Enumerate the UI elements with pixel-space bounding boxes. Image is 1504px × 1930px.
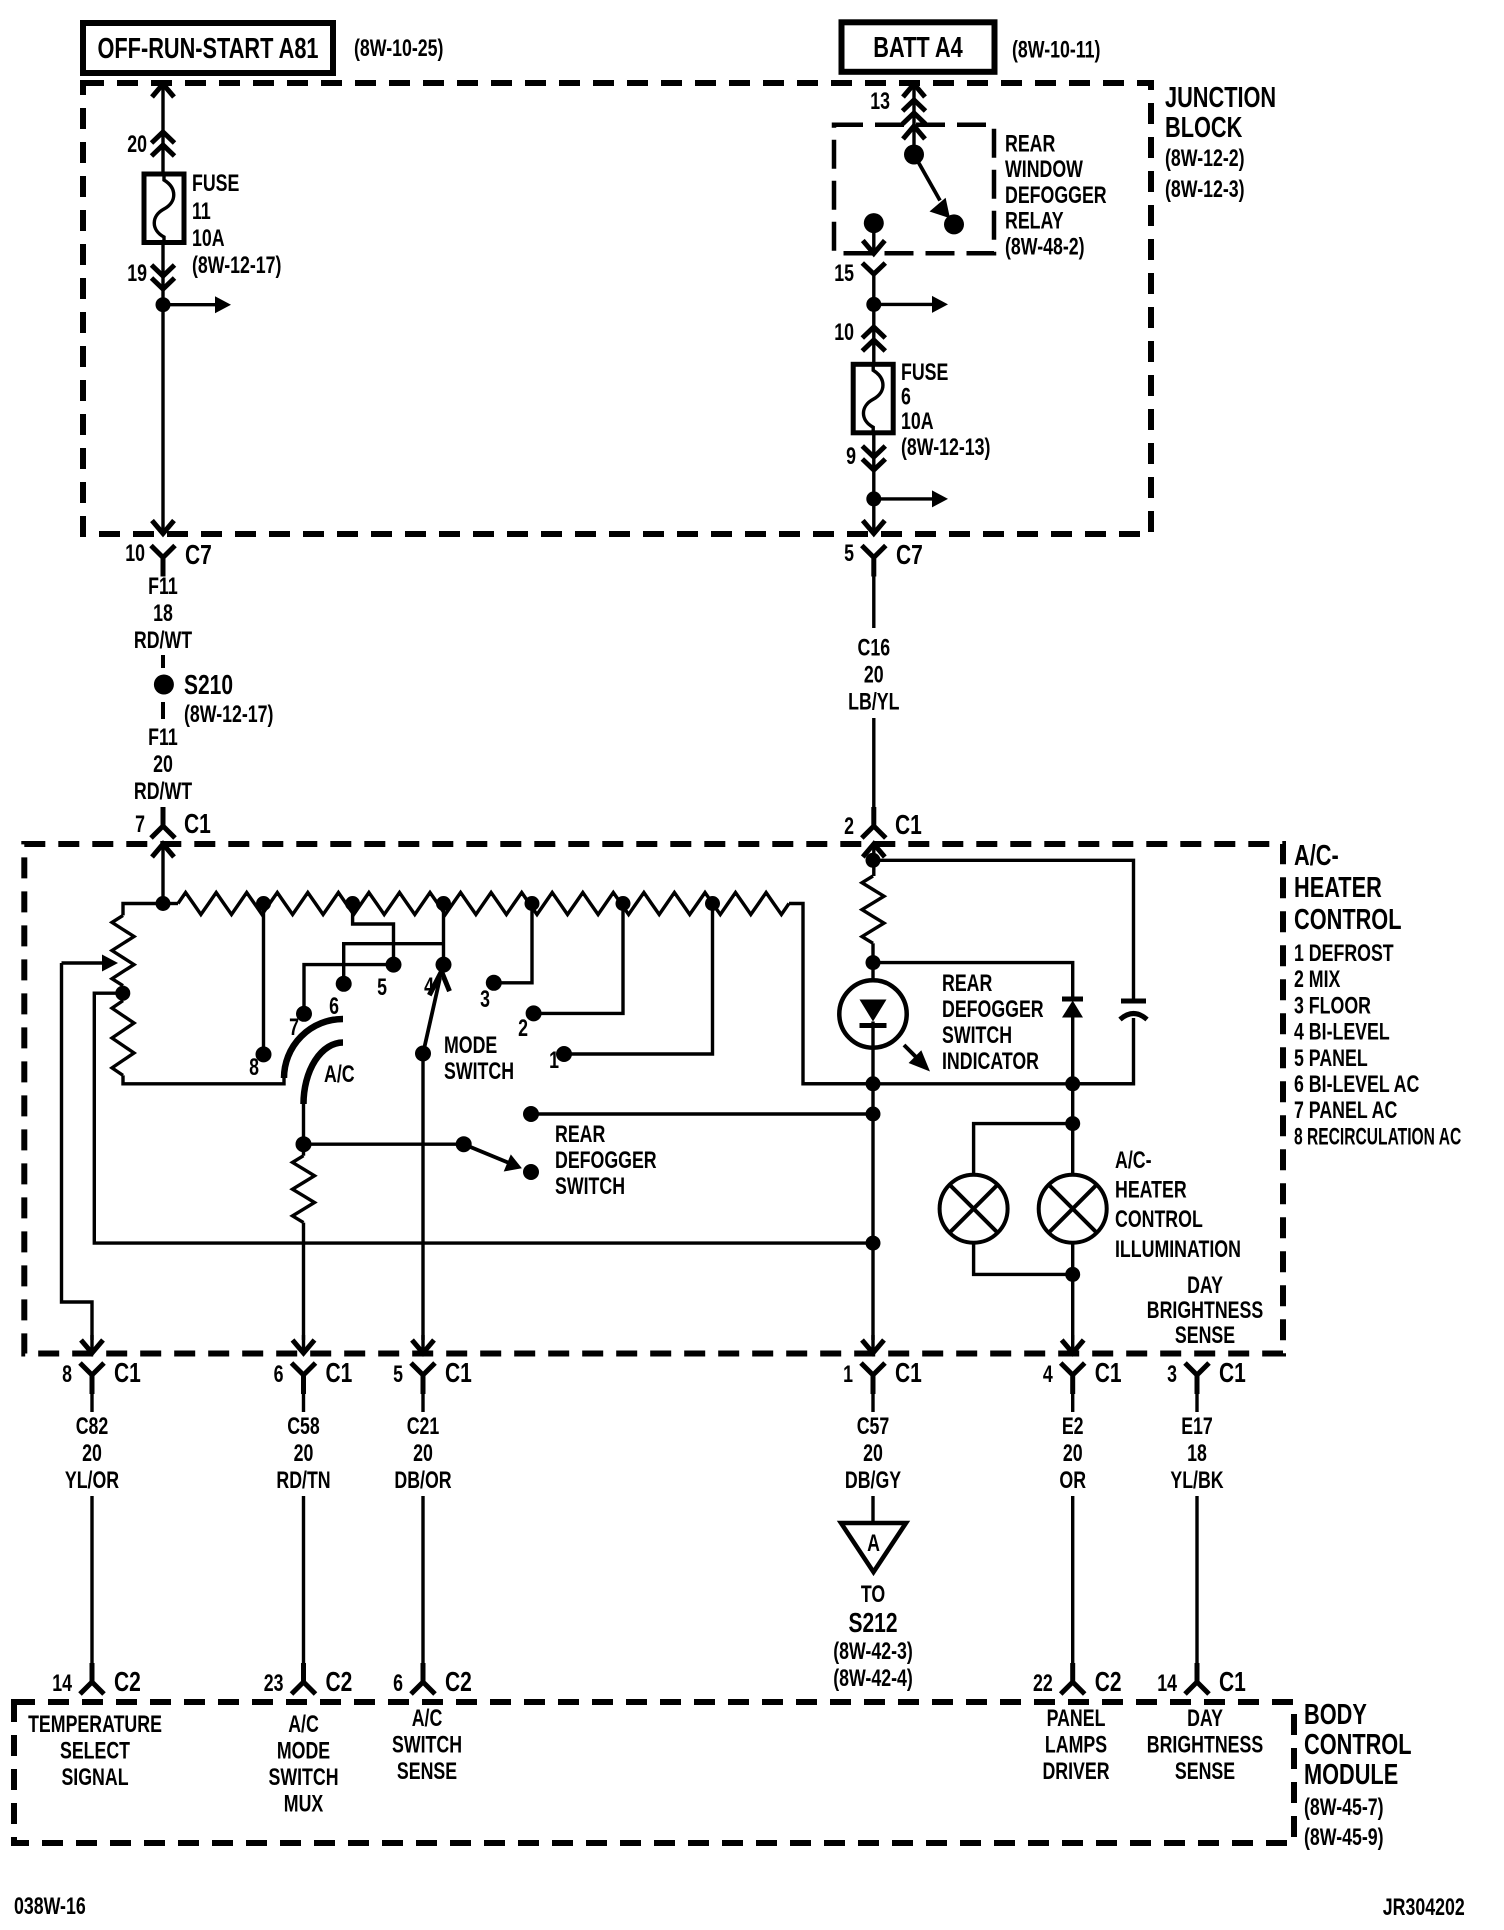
- svg-text:A: A: [867, 1531, 880, 1557]
- arrow into control box (pin 2 C1): [863, 844, 885, 857]
- wire C57 upper: [871, 1394, 874, 1412]
- dashed wire to S210: [161, 655, 165, 668]
- wire arc to A/C common dot: [302, 1104, 305, 1144]
- connector C1 pin 5: [411, 1363, 435, 1394]
- svg-text:SWITCH: SWITCH: [268, 1765, 338, 1791]
- rear defogger switch pivot dot: [456, 1136, 472, 1152]
- wire into indicator branch: [872, 844, 875, 876]
- svg-text:A/C-: A/C-: [1294, 840, 1339, 872]
- arrow out of control box pin 1: [871, 1335, 874, 1353]
- svg-text:C7: C7: [896, 540, 923, 571]
- mode switch blade: [423, 978, 440, 1054]
- connector C2 pin 22 at BCM: [1061, 1663, 1085, 1694]
- svg-text:23: 23: [264, 1671, 284, 1697]
- rail to protection diode: [873, 963, 1073, 999]
- svg-text:SWITCH: SWITCH: [555, 1174, 625, 1200]
- defogger sense node dot: [866, 1107, 881, 1122]
- svg-text:9: 9: [846, 444, 856, 470]
- relay switch pivot dot: [904, 145, 924, 165]
- relay output wire: [872, 223, 875, 253]
- svg-text:1: 1: [549, 1048, 559, 1074]
- contact 3 wire: [494, 904, 532, 983]
- pin 19 double chevron: [152, 265, 175, 276]
- svg-text:22: 22: [1033, 1671, 1053, 1697]
- svg-text:C7: C7: [185, 540, 212, 571]
- svg-text:DB/OR: DB/OR: [394, 1468, 451, 1494]
- svg-text:SWITCH: SWITCH: [942, 1023, 1012, 1049]
- svg-text:DRIVER: DRIVER: [1042, 1759, 1109, 1785]
- wire A/C common to defogger switch pivot: [304, 1142, 464, 1145]
- svg-text:DEFOGGER: DEFOGGER: [555, 1148, 657, 1174]
- svg-text:BRIGHTNESS: BRIGHTNESS: [1147, 1298, 1263, 1324]
- connector C1 pin 8: [80, 1363, 104, 1394]
- svg-text:(8W-10-11): (8W-10-11): [1012, 37, 1100, 63]
- svg-text:(8W-10-25): (8W-10-25): [354, 36, 443, 62]
- svg-text:C1: C1: [114, 1358, 141, 1389]
- mode switch pivot dot: [415, 1046, 431, 1062]
- svg-text:5 PANEL: 5 PANEL: [1294, 1045, 1368, 1071]
- svg-text:20: 20: [413, 1441, 433, 1467]
- indicator series resistor: [862, 876, 884, 943]
- relay switch blade: [914, 155, 940, 201]
- svg-text:SIGNAL: SIGNAL: [61, 1765, 128, 1791]
- svg-text:C2: C2: [1095, 1667, 1122, 1698]
- pin 15 in-line connector: [862, 263, 885, 274]
- arrow into junction block top (left): [152, 84, 174, 97]
- svg-text:E17: E17: [1181, 1414, 1213, 1440]
- rear defogger switch indicator LED: [839, 980, 906, 1047]
- svg-text:1: 1: [843, 1362, 853, 1388]
- bottom rail dot at LED: [866, 1076, 881, 1091]
- svg-text:WINDOW: WINDOW: [1005, 157, 1083, 183]
- svg-text:OFF-RUN-START A81: OFF-RUN-START A81: [97, 33, 318, 65]
- relay normally-open contact dot: [944, 214, 964, 234]
- arrow out of junction block bottom (right): [863, 521, 885, 534]
- svg-text:JUNCTION: JUNCTION: [1165, 82, 1276, 114]
- svg-text:FUSE: FUSE: [192, 171, 239, 197]
- wire defogger contact to indicator branch: [531, 1112, 873, 1115]
- svg-text:7: 7: [135, 812, 145, 838]
- svg-text:C1: C1: [184, 809, 211, 840]
- mode switch output wire to C1 pin 5: [421, 1054, 424, 1341]
- svg-text:(8W-48-2): (8W-48-2): [1005, 234, 1085, 260]
- svg-text:BRIGHTNESS: BRIGHTNESS: [1147, 1732, 1263, 1758]
- svg-text:MODULE: MODULE: [1304, 1759, 1398, 1791]
- connector C1 pin 1 (bottom): [861, 1363, 885, 1394]
- svg-text:DAY: DAY: [1187, 1706, 1223, 1732]
- svg-text:CONTROL: CONTROL: [1294, 904, 1401, 936]
- svg-text:MODE: MODE: [444, 1033, 497, 1059]
- svg-text:6: 6: [329, 994, 339, 1020]
- off-page connector A triangle: [841, 1523, 906, 1572]
- contact 4 dot: [436, 957, 452, 973]
- wire indicator branch to C1 pin 1: [871, 1084, 874, 1340]
- wire E17 upper: [1195, 1394, 1198, 1412]
- svg-text:C2: C2: [114, 1667, 141, 1698]
- svg-text:C1: C1: [1219, 1358, 1246, 1389]
- connector C1 pin 4: [1061, 1363, 1085, 1394]
- bottom rail: [803, 1082, 1134, 1085]
- svg-text:2: 2: [844, 814, 854, 840]
- svg-text:(8W-12-17): (8W-12-17): [192, 253, 281, 279]
- svg-text:20: 20: [153, 752, 173, 778]
- svg-text:038W-16: 038W-16: [14, 1894, 86, 1920]
- junction dot with feed arrow (left): [156, 297, 171, 312]
- svg-text:LAMPS: LAMPS: [1045, 1732, 1107, 1758]
- svg-text:6: 6: [274, 1362, 284, 1388]
- svg-text:10A: 10A: [192, 226, 225, 252]
- svg-text:2: 2: [518, 1016, 528, 1042]
- wire LED to bottom rail: [871, 1048, 874, 1084]
- svg-text:5: 5: [844, 541, 854, 567]
- svg-text:(8W-45-9): (8W-45-9): [1304, 1825, 1384, 1851]
- power feed box OFF-RUN-START A81: [83, 23, 333, 73]
- wire label to C1 pin 2: [872, 718, 875, 807]
- pin 9 double chevron: [862, 446, 885, 457]
- svg-text:LB/YL: LB/YL: [848, 689, 899, 715]
- relay output contact dot: [864, 213, 884, 233]
- contact 1 wire: [564, 904, 713, 1055]
- arrow out of control box pin 4: [1071, 1335, 1074, 1353]
- pot bottom wire to mode switch arc: [123, 1075, 284, 1083]
- temperature select potentiometer lower: [121, 993, 124, 1000]
- contact 4 wire: [442, 904, 445, 965]
- svg-text:DB/GY: DB/GY: [845, 1468, 901, 1494]
- wire C58 lower: [302, 1496, 305, 1668]
- svg-text:MUX: MUX: [284, 1791, 323, 1817]
- svg-text:C1: C1: [445, 1358, 472, 1389]
- illumination lamp 2: [1039, 1175, 1107, 1243]
- svg-text:20: 20: [294, 1441, 314, 1467]
- svg-text:19: 19: [127, 261, 147, 287]
- svg-text:(8W-12-2): (8W-12-2): [1165, 146, 1245, 172]
- wire E2 lower: [1071, 1496, 1074, 1668]
- svg-text:6: 6: [393, 1671, 403, 1697]
- svg-text:BLOCK: BLOCK: [1165, 112, 1243, 144]
- pin 10 double chevron: [862, 327, 885, 338]
- svg-text:14: 14: [1157, 1671, 1177, 1697]
- svg-text:F11: F11: [148, 725, 178, 751]
- contact 2 dot: [526, 1005, 542, 1021]
- svg-text:S212: S212: [848, 1608, 897, 1639]
- arrow into junction block top (right): [903, 84, 925, 97]
- svg-text:C1: C1: [326, 1358, 353, 1389]
- svg-text:2 MIX: 2 MIX: [1294, 967, 1340, 993]
- svg-text:TEMPERATURE: TEMPERATURE: [28, 1712, 162, 1738]
- svg-text:18: 18: [1187, 1441, 1207, 1467]
- contact 1 dot: [556, 1046, 572, 1062]
- svg-text:YL/BK: YL/BK: [1170, 1468, 1224, 1494]
- svg-text:1 DEFROST: 1 DEFROST: [1294, 941, 1394, 967]
- wire lamp feed to lamp 1: [974, 1124, 1073, 1175]
- svg-text:4: 4: [1043, 1362, 1053, 1388]
- svg-text:SENSE: SENSE: [1175, 1323, 1235, 1349]
- top rail to capacitor: [873, 860, 1134, 1001]
- arrow out of control box pin 5: [421, 1335, 424, 1353]
- svg-text:HEATER: HEATER: [1115, 1177, 1187, 1203]
- connector C1 pin 3: [1185, 1363, 1209, 1394]
- svg-text:8 RECIRCULATION AC: 8 RECIRCULATION AC: [1294, 1124, 1462, 1150]
- svg-text:(8W-42-3): (8W-42-3): [833, 1639, 913, 1665]
- svg-text:SWITCH: SWITCH: [392, 1732, 462, 1758]
- wiper wire to C1 pin 8: [62, 963, 93, 1340]
- contact 3 dot: [486, 975, 502, 991]
- illumination lamp 1: [940, 1175, 1008, 1243]
- wire from BATT A4 into junction block: [912, 84, 915, 155]
- wire from OFF-RUN-START into junction block: [161, 84, 164, 174]
- svg-text:20: 20: [863, 1441, 883, 1467]
- svg-text:MODE: MODE: [277, 1738, 330, 1764]
- arrow out of control box pin 8: [90, 1335, 93, 1353]
- svg-text:E2: E2: [1062, 1414, 1084, 1440]
- contact 2 wire: [534, 904, 623, 1014]
- wire C82 lower: [90, 1496, 93, 1668]
- temperature select potentiometer upper: [112, 915, 134, 985]
- bottom rail dot at diode: [1065, 1076, 1080, 1091]
- svg-text:C1: C1: [1095, 1358, 1122, 1389]
- svg-text:3: 3: [1167, 1362, 1177, 1388]
- svg-text:ILLUMINATION: ILLUMINATION: [1115, 1236, 1241, 1262]
- svg-text:A/C: A/C: [288, 1712, 319, 1738]
- contact 8 wire: [262, 904, 265, 1055]
- contact 7 wire: [304, 965, 394, 1014]
- svg-text:20: 20: [82, 1441, 102, 1467]
- svg-text:TO: TO: [861, 1582, 885, 1608]
- svg-text:RD/TN: RD/TN: [276, 1468, 330, 1494]
- arrow out of junction block bottom (left): [152, 521, 174, 534]
- svg-text:BATT A4: BATT A4: [873, 32, 963, 64]
- svg-text:SELECT: SELECT: [60, 1738, 130, 1764]
- svg-text:(8W-12-3): (8W-12-3): [1165, 177, 1245, 203]
- svg-text:FUSE: FUSE: [901, 360, 948, 386]
- svg-text:C1: C1: [1219, 1667, 1246, 1698]
- mode resistor chain zigzag: [178, 893, 789, 915]
- svg-text:RD/WT: RD/WT: [134, 779, 192, 805]
- wire C58 upper: [302, 1394, 305, 1412]
- svg-text:11: 11: [192, 199, 211, 225]
- connector C1 pin 14 at BCM: [1185, 1663, 1209, 1694]
- svg-text:REAR: REAR: [942, 971, 992, 997]
- potentiometer tap dot: [115, 986, 130, 1001]
- connector C7 pin 10: [151, 546, 175, 577]
- svg-text:8: 8: [249, 1055, 259, 1081]
- svg-text:3 FLOOR: 3 FLOOR: [1294, 993, 1371, 1019]
- wire lamp 2 to C1 pin 4: [1071, 1243, 1074, 1340]
- svg-text:7 PANEL AC: 7 PANEL AC: [1294, 1098, 1397, 1124]
- wire C21 upper: [421, 1394, 424, 1412]
- svg-text:C57: C57: [857, 1414, 890, 1440]
- fuse 11 symbol: [144, 174, 184, 243]
- indicator upper node dot: [866, 955, 881, 970]
- svg-text:RELAY: RELAY: [1005, 208, 1064, 234]
- svg-text:A/C: A/C: [324, 1062, 355, 1088]
- svg-text:C2: C2: [445, 1667, 472, 1698]
- svg-text:HEATER: HEATER: [1294, 872, 1382, 904]
- junction block dashed border: [83, 83, 1151, 534]
- wire C21 lower: [421, 1496, 424, 1668]
- fuse 6 symbol: [853, 364, 893, 433]
- pin 13 double chevron: [903, 100, 926, 111]
- arrow into control box (pin 7 C1): [152, 844, 174, 857]
- connector C1 pin 2: [862, 807, 886, 838]
- svg-text:REAR: REAR: [555, 1122, 605, 1148]
- svg-text:3: 3: [480, 987, 490, 1013]
- svg-text:(8W-42-4): (8W-42-4): [833, 1666, 913, 1692]
- svg-text:DEFOGGER: DEFOGGER: [942, 997, 1044, 1023]
- potentiometer wiper arrow: [62, 961, 104, 964]
- svg-text:SWITCH: SWITCH: [444, 1059, 514, 1085]
- A/C sense resistor: [302, 1144, 305, 1156]
- indicator pointer arrow: [904, 1045, 918, 1059]
- wire diode node to lamps: [1071, 1084, 1074, 1175]
- chain tap dots: [156, 896, 171, 911]
- A/C common dot: [296, 1136, 312, 1152]
- svg-text:20: 20: [1063, 1441, 1083, 1467]
- dashed wire from S210: [161, 702, 165, 719]
- splice S210: [154, 675, 174, 695]
- indicator top node dot: [866, 853, 881, 868]
- wire C7 to label C16: [872, 577, 875, 629]
- junction dot with feed arrow (relay out): [866, 297, 881, 312]
- svg-text:14: 14: [52, 1671, 72, 1697]
- svg-text:C58: C58: [287, 1414, 320, 1440]
- lamp return node dot: [1065, 1267, 1080, 1282]
- body control module dashed border: [14, 1702, 1294, 1843]
- svg-text:10: 10: [125, 541, 145, 567]
- svg-text:(8W-12-13): (8W-12-13): [901, 435, 990, 461]
- connector C7 pin 5: [862, 546, 886, 577]
- power feed box BATT A4: [842, 22, 995, 72]
- A/C switch wiper arc: [304, 1043, 344, 1105]
- wire fuse 11 to junction block bottom: [161, 243, 164, 534]
- wire E2 upper: [1071, 1394, 1074, 1412]
- contact 5 dot: [386, 957, 402, 973]
- relay coil-side arrow at relay top: [903, 126, 925, 139]
- lamp feed node dot: [1065, 1116, 1080, 1131]
- svg-text:5: 5: [377, 975, 387, 1001]
- svg-text:18: 18: [153, 601, 173, 627]
- svg-text:INDICATOR: INDICATOR: [942, 1049, 1039, 1075]
- connector C1 pin 7: [151, 807, 175, 838]
- svg-text:6: 6: [901, 384, 911, 410]
- svg-text:OR: OR: [1059, 1468, 1086, 1494]
- svg-text:SENSE: SENSE: [397, 1759, 457, 1785]
- svg-text:4 BI-LEVEL: 4 BI-LEVEL: [1294, 1019, 1390, 1045]
- rear defogger switch blade: [464, 1144, 512, 1164]
- svg-text:A/C: A/C: [412, 1706, 443, 1732]
- contact 7 dot: [296, 1006, 312, 1022]
- svg-text:PANEL: PANEL: [1047, 1706, 1106, 1732]
- svg-text:C1: C1: [895, 810, 922, 841]
- svg-text:REAR: REAR: [1005, 131, 1055, 157]
- svg-text:13: 13: [870, 89, 890, 115]
- svg-text:C21: C21: [407, 1414, 440, 1440]
- svg-text:C82: C82: [76, 1414, 109, 1440]
- wire C57 lower: [871, 1496, 874, 1522]
- arrow out of control box pin 6: [302, 1335, 305, 1353]
- wire C82 upper: [90, 1394, 93, 1412]
- wire chain to potentiometer: [123, 904, 163, 916]
- contact 8 dot: [256, 1046, 272, 1062]
- contact 5 wire: [353, 904, 394, 965]
- wire E17 lower: [1195, 1496, 1198, 1668]
- svg-text:15: 15: [834, 261, 854, 287]
- svg-text:S210: S210: [184, 670, 233, 701]
- svg-text:F11: F11: [148, 574, 178, 600]
- svg-text:6 BI-LEVEL AC: 6 BI-LEVEL AC: [1294, 1072, 1419, 1098]
- rear defogger switch contact dot: [523, 1106, 539, 1122]
- svg-text:5: 5: [393, 1362, 403, 1388]
- illumination return node dot: [866, 1236, 881, 1251]
- connector C2 pin 6 at BCM: [411, 1663, 435, 1694]
- svg-text:A/C-: A/C-: [1115, 1148, 1152, 1174]
- protection diode: [1062, 997, 1083, 1002]
- svg-text:CONTROL: CONTROL: [1115, 1207, 1203, 1233]
- contact 6 dot: [336, 976, 352, 992]
- arrow out of relay bottom: [863, 241, 885, 254]
- wire fuse 6 to junction block bottom: [872, 433, 875, 533]
- svg-text:10: 10: [834, 320, 854, 346]
- svg-text:20: 20: [864, 662, 884, 688]
- connector C1 pin 6: [292, 1363, 316, 1394]
- svg-text:20: 20: [127, 132, 147, 158]
- svg-text:SENSE: SENSE: [1175, 1759, 1235, 1785]
- svg-text:8: 8: [62, 1362, 72, 1388]
- svg-text:(8W-45-7): (8W-45-7): [1304, 1795, 1384, 1821]
- svg-text:10A: 10A: [901, 409, 934, 435]
- svg-text:BODY: BODY: [1304, 1699, 1367, 1731]
- pot tap wire to illumination return: [94, 993, 873, 1243]
- svg-text:DEFOGGER: DEFOGGER: [1005, 182, 1107, 208]
- svg-text:JR304202: JR304202: [1383, 1895, 1465, 1921]
- mode switch wiper arc: [284, 1019, 343, 1078]
- pin 20 double chevron: [152, 132, 175, 143]
- svg-text:YL/OR: YL/OR: [65, 1468, 119, 1494]
- wire C1 pin7 to resistor chain: [161, 844, 164, 904]
- svg-text:(8W-12-17): (8W-12-17): [184, 702, 273, 728]
- junction dot with feed arrow (fuse 6 out): [866, 491, 881, 506]
- svg-text:C2: C2: [326, 1667, 353, 1698]
- capacitor: [1121, 999, 1146, 1004]
- svg-text:RD/WT: RD/WT: [134, 628, 192, 654]
- rear defogger switch open contact dot: [523, 1164, 539, 1180]
- svg-text:C16: C16: [858, 635, 891, 661]
- rear window defogger relay dashed box: [834, 125, 994, 254]
- connector C2 pin 23 at BCM: [292, 1663, 316, 1694]
- svg-text:DAY: DAY: [1187, 1273, 1223, 1299]
- contact 6 wire: [344, 944, 444, 984]
- svg-text:7: 7: [289, 1015, 299, 1041]
- wire lamp 1 to return: [974, 1243, 1073, 1275]
- svg-text:C1: C1: [895, 1358, 922, 1389]
- A/C-heater control dashed border: [24, 844, 1283, 1354]
- connector C2 pin 14 at BCM: [80, 1663, 104, 1694]
- svg-text:CONTROL: CONTROL: [1304, 1729, 1411, 1761]
